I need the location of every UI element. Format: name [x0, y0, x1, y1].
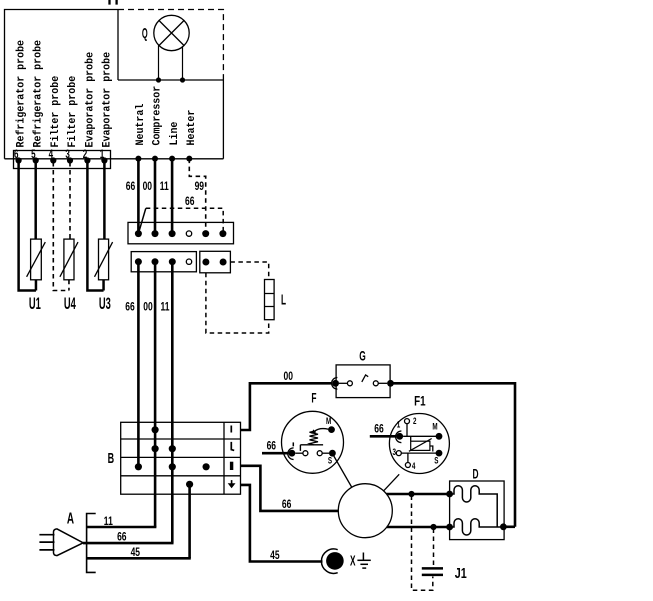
K2 terminal dots — [135, 258, 176, 265]
wire F S to compressor — [334, 456, 352, 488]
svg-text:00: 00 — [283, 371, 293, 384]
wire 11 to plug — [87, 526, 157, 529]
svg-text:11: 11 — [160, 181, 169, 194]
wire U1 bottom stub — [35, 280, 38, 291]
junction dot lower J1 branch — [430, 524, 436, 530]
wire F1 to compressor — [384, 474, 399, 490]
wire 66 B row3 to compressor — [241, 466, 339, 511]
G switch lever — [362, 375, 368, 382]
svg-text:45: 45 — [131, 547, 141, 560]
wire 11 K2 to B and down to 66 line — [171, 262, 174, 543]
wire lamp left — [158, 46, 160, 81]
B dots row2 — [152, 445, 159, 452]
connector block K2 — [131, 252, 196, 272]
door switch G box — [336, 365, 390, 398]
svg-text:Filter probe: Filter probe — [50, 76, 63, 148]
earth point X arc — [321, 549, 337, 573]
wire lamp right — [182, 46, 184, 80]
svg-text:2: 2 — [413, 416, 416, 426]
svg-text:00: 00 — [143, 181, 153, 194]
svg-text:U1: U1 — [29, 294, 41, 313]
svg-text:00: 00 — [143, 301, 153, 314]
svg-text:66: 66 — [267, 440, 277, 453]
svg-text:M: M — [432, 421, 437, 431]
wire 45 B row4 down — [188, 484, 191, 558]
earth point X dot — [326, 552, 344, 570]
connector block K1 — [128, 222, 234, 243]
svg-text:U3: U3 — [99, 294, 111, 313]
wire J1 branch right dashed — [433, 529, 435, 567]
B row3 symbol thick bar — [230, 462, 233, 470]
junction dot upper J1 branch — [408, 491, 414, 497]
wire strip3 to U4 top dashed — [69, 162, 71, 239]
B row1 symbol I — [230, 426, 232, 433]
terminal block B outline — [121, 422, 241, 494]
svg-text:M: M — [326, 416, 331, 426]
svg-text:3: 3 — [392, 447, 396, 457]
G right terminal dot — [387, 380, 394, 387]
F1 bottom rail — [401, 452, 436, 454]
lamp compartment divider — [118, 10, 223, 81]
junction lamp left — [156, 77, 161, 82]
svg-text:L: L — [281, 291, 286, 308]
svg-text:Q: Q — [142, 24, 148, 42]
svg-text:S: S — [328, 455, 332, 465]
F pin I dot — [289, 450, 296, 457]
wire 66 stub to F1 — [370, 435, 397, 438]
F armature arrowhead — [312, 429, 317, 434]
wire K3 left to L bottom dashed — [206, 273, 269, 333]
D heater element bottom — [450, 519, 504, 535]
wire strip5 to U1 top — [34, 162, 37, 239]
junction dot D right — [500, 523, 507, 530]
junction Line at box bottom — [169, 156, 175, 162]
G contact wire left — [339, 382, 348, 384]
svg-text:66: 66 — [117, 531, 127, 544]
K1 terminal dots — [135, 230, 227, 237]
F contact wire — [295, 452, 303, 454]
thermistor U3 — [99, 239, 109, 280]
svg-text:4: 4 — [412, 461, 416, 471]
F1 top rail — [403, 435, 436, 437]
svg-text:Neutral: Neutral — [135, 104, 148, 146]
svg-text:Compressor: Compressor — [151, 86, 164, 146]
junction Neutral at box bottom — [135, 156, 141, 162]
thermistor U1 — [31, 239, 42, 280]
D heater element top — [450, 486, 498, 527]
mains plug A body — [54, 529, 84, 556]
F1 pin3 circle — [396, 451, 401, 456]
connector bracket A — [87, 514, 96, 573]
svg-text:45: 45 — [270, 550, 280, 563]
svg-text:66: 66 — [374, 423, 384, 436]
wire 66 jumper dashed — [146, 208, 223, 230]
box H outline dashed part — [118, 10, 223, 81]
wire G to right loop — [394, 383, 516, 527]
svg-text:1: 1 — [397, 419, 401, 429]
wire D right to loop — [503, 525, 515, 528]
box H outline solid part — [5, 10, 224, 159]
F1 element right link — [430, 446, 433, 452]
F1 rail to element stub — [410, 436, 412, 441]
F coil zigzag — [310, 431, 319, 445]
defrost heater D box — [450, 481, 505, 540]
F pin S dot — [329, 450, 336, 457]
interference suppressor L — [265, 280, 275, 320]
wire 00 K2 to B and down to 11 line — [154, 262, 157, 527]
svg-text:S: S — [434, 455, 438, 465]
wire Compressor 00 — [154, 159, 157, 234]
F1 pin4 circle — [405, 463, 410, 468]
svg-text:F: F — [311, 392, 316, 407]
svg-text:66: 66 — [125, 301, 135, 314]
capacitor J1 plates — [422, 567, 443, 570]
B dots row1 — [152, 426, 159, 433]
wire U3 bottom stub — [102, 280, 105, 291]
G left connector arc — [332, 378, 338, 390]
G left terminal dot — [332, 380, 339, 387]
junction Heater at box bottom — [186, 156, 192, 162]
svg-text:F1: F1 — [414, 393, 426, 409]
svg-text:99: 99 — [195, 181, 205, 194]
F contact 1 — [303, 451, 308, 456]
F1 pin1 connector arc — [396, 431, 402, 443]
compressor motor circle — [338, 484, 392, 538]
svg-text:J1: J1 — [455, 564, 467, 581]
G contact wire right — [378, 382, 387, 384]
wire J1 branch left dashed — [412, 496, 433, 591]
F contact wire 2 — [322, 452, 329, 454]
svg-text:D: D — [472, 468, 478, 483]
F pin I connector arc — [288, 448, 294, 460]
F1 pin S dot — [436, 450, 443, 457]
wire 66 K2 to B — [137, 262, 140, 467]
F coil bar — [300, 445, 323, 451]
G contact 2 — [373, 381, 378, 386]
F contact 2 — [317, 451, 322, 456]
B row4 symbol earth arrow — [231, 480, 233, 485]
wire strip6 down — [19, 162, 36, 291]
wire 66 jumper diagonal — [139, 208, 146, 231]
thermal protector F1 circle — [389, 414, 449, 474]
wire 00 B row1 to G — [241, 383, 332, 430]
svg-text:66: 66 — [126, 181, 136, 194]
F1 heater element — [411, 441, 430, 450]
F1 pin1 dot — [396, 433, 403, 440]
B row dividers — [121, 439, 241, 476]
wire Neutral 66 — [137, 159, 140, 234]
plug prongs — [39, 535, 54, 550]
F pin I tick — [292, 442, 294, 446]
B symbol column divider — [223, 422, 225, 494]
B dots row4 — [186, 481, 193, 488]
svg-text:G: G — [359, 349, 366, 364]
junction lamp right — [180, 77, 185, 82]
svg-text:B: B — [108, 450, 115, 467]
svg-text:Refrigerator probe: Refrigerator probe — [32, 40, 45, 148]
svg-text:Line: Line — [168, 122, 181, 146]
probe connector strip — [14, 151, 111, 169]
lamp Q — [154, 15, 189, 50]
F1 pin M dot — [436, 433, 443, 440]
svg-text:11: 11 — [104, 516, 113, 529]
wire 45 to plug — [87, 557, 191, 560]
wire strip4 dashed — [53, 162, 69, 291]
K1 open terminal — [186, 231, 191, 236]
label H (clipped at top) — [110, 0, 117, 5]
wire 66 to plug — [83, 542, 174, 545]
strip terminal dots — [16, 157, 108, 163]
wire strip1 to U3 top — [103, 162, 106, 239]
wire 45 B row4 to earth X — [241, 485, 323, 562]
earth symbol — [362, 553, 364, 561]
connector block K3 — [200, 251, 231, 272]
F1 pin2 stem — [406, 424, 408, 437]
svg-text:X: X — [350, 552, 356, 569]
wire Line 11 — [171, 159, 174, 234]
B row2 symbol L — [231, 442, 234, 451]
svg-text:Evaporator probe: Evaporator probe — [84, 52, 97, 148]
svg-text:Refrigerator probe: Refrigerator probe — [15, 40, 28, 148]
G contact 1 — [347, 381, 352, 386]
junction dot D left lower — [446, 524, 453, 531]
start relay F circle — [282, 411, 344, 473]
F armature curve to M — [315, 429, 329, 432]
wire strip2 down — [87, 162, 103, 291]
junction Compressor at box bottom — [152, 156, 158, 162]
K2 open terminal — [186, 259, 191, 264]
wire 66 stub to F — [262, 452, 289, 455]
K3 terminal dots — [202, 259, 226, 266]
B dots row3 — [135, 463, 142, 470]
svg-text:Heater: Heater — [186, 110, 199, 146]
F1 pin2 circle — [405, 419, 410, 424]
F pin M dot — [328, 426, 335, 433]
F1 pin4 stem — [407, 453, 409, 462]
thermistor U4 — [64, 239, 74, 280]
svg-text:66: 66 — [282, 499, 292, 512]
wire compressor to D lower — [387, 526, 450, 529]
svg-text:11: 11 — [161, 301, 170, 314]
svg-text:66: 66 — [185, 196, 195, 209]
wire compressor to D upper — [387, 493, 450, 496]
svg-text:A: A — [67, 509, 74, 527]
svg-text:Filter probe: Filter probe — [66, 76, 79, 148]
svg-text:U4: U4 — [64, 294, 76, 313]
wire U4 bottom stub dashed — [68, 280, 70, 291]
wire Heater 99 dashed — [189, 159, 205, 230]
wire K3 to L dashed — [230, 262, 268, 280]
junction dot D left upper — [446, 491, 453, 498]
svg-text:Evaporator probe: Evaporator probe — [101, 52, 114, 148]
